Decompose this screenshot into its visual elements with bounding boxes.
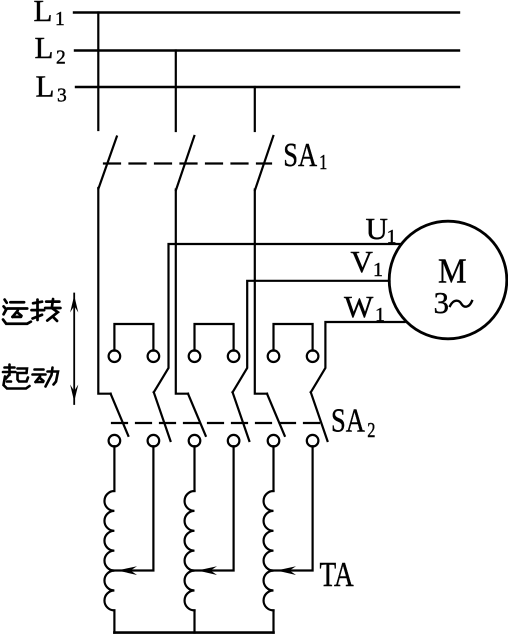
wire L3 drop to SA1 pole 3 [254,87,256,131]
TA2 tap arrow [198,566,217,575]
SA2 phase3 lower contact b [307,435,319,447]
svg-text:SA: SA [331,401,365,439]
label V1 [351,244,384,281]
switch SA2 blade A3 [267,394,285,436]
switch SA2 blade A1 [111,394,129,436]
wire L2 bus [75,49,459,51]
svg-text:L: L [34,0,53,28]
wire lower contact a2 to TA2 winding top [193,446,195,491]
SA2 phase2 upper contact a [189,350,201,362]
wire lower contact a1 to TA1 winding top [113,446,115,491]
svg-text:1: 1 [55,9,65,30]
wire lower contact b3 to TA3 tap [270,446,313,570]
SA2 phase2 lower contact a [189,435,201,447]
motor M1 letter [438,252,467,291]
wire L3 bus [76,86,459,88]
SA2 phase1 lower contact b [148,435,160,447]
wire L1 bus [74,11,459,13]
wire L1 drop to SA1 pole 1 [97,13,99,131]
char zhuan [32,299,61,321]
switch SA2 mechanical link (dashed) [112,422,326,424]
svg-text:2: 2 [56,48,66,69]
wire SA1 pole3 to SA2 blade A3 pivot [255,190,267,394]
svg-text:1: 1 [387,226,397,248]
wire TA1 bottom to star bus [113,610,115,632]
wire L2 drop to SA1 pole 2 [175,51,177,132]
SA2 phase3 upper contact a [268,350,280,362]
svg-text:L: L [35,30,54,65]
svg-text:SA: SA [283,136,317,174]
autotransformer TA3 winding [264,491,274,610]
SA2 phase3 upper contact b [307,350,319,362]
svg-text:U: U [366,211,388,246]
SA2 phase2 lower contact b [228,435,240,447]
svg-text:3: 3 [434,285,450,320]
char qi [3,365,30,389]
label SA2 [331,401,375,442]
SA2 phase2 run-contact bridge [195,324,234,351]
char yun [3,300,31,324]
svg-text:W: W [344,289,374,324]
autotransformer TA1 winding [104,491,114,610]
wire TA2 bottom to star bus [193,610,195,632]
wire lower contact b2 to TA2 tap [191,446,234,570]
SA2 phase2 upper contact b [228,350,240,362]
wire lower contact b1 to TA1 tap [111,446,154,570]
svg-text:1: 1 [319,151,327,174]
label TA [320,555,354,594]
svg-text:1: 1 [373,259,383,281]
switch SA2 blade B2 [233,392,250,441]
label W1 [344,289,385,326]
wire SA1 pole1 to SA2 blade A1 pivot [98,188,110,394]
wire U1 motor lead [154,244,401,392]
svg-text:3: 3 [57,86,67,107]
switch SA2 blade B1 [154,392,171,441]
switch SA1 blade 1 [99,137,117,189]
switch SA1 mechanical link (dashed) [104,162,271,164]
SA2 phase1 lower contact a [109,435,121,447]
label qidong (start) [3,365,58,389]
wire TA3 bottom to star bus [272,610,274,632]
svg-text:L: L [36,68,55,103]
SA2 phase3 lower contact a [268,435,280,447]
motor M1 3-phase mark [434,285,473,320]
switch SA2 blade B3 [311,392,328,441]
TA3 tap arrow [277,566,296,575]
autotransformer TA2 winding [185,491,195,610]
run/start selector arrow [70,294,78,405]
switch SA1 blade 2 [176,136,194,190]
node L2 label [35,30,66,68]
label U1 [366,211,397,248]
wire W1 motor lead [311,322,405,392]
svg-text:V: V [351,244,374,279]
svg-text:TA: TA [320,555,354,594]
label SA1 [283,136,327,175]
motor M1 body [389,221,507,339]
char dong [33,368,59,387]
wire SA1 pole2 to SA2 blade A2 pivot [176,190,188,394]
switch SA1 blade 3 [255,136,273,190]
wire lower contact a3 to TA3 winding top [272,446,274,491]
SA2 phase1 run-contact bridge [114,324,153,351]
svg-text:1: 1 [375,304,385,326]
label yunzhuan (run) [3,299,60,324]
wire star-point bus [114,631,273,634]
SA2 phase1 upper contact a [109,350,121,362]
SA2 phase1 upper contact b [148,350,160,362]
TA1 tap arrow [118,566,138,575]
SA2 phase3 run-contact bridge [274,324,313,351]
switch SA2 blade A2 [188,394,206,436]
svg-text:2: 2 [367,419,375,442]
wire V1 motor lead [233,281,390,393]
node L3 label [36,68,67,106]
node L1 label [34,0,65,30]
